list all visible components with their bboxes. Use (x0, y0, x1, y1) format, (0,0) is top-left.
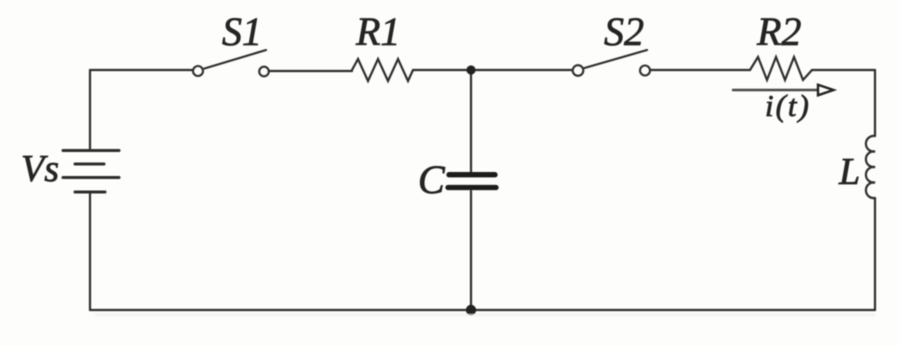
switch S2 (573, 65, 584, 76)
svg-text:i(t): i(t) (765, 88, 811, 123)
svg-text:L: L (838, 151, 860, 193)
wire R2 to corner (812, 69, 875, 71)
current arrow i(t) (733, 89, 817, 92)
wire bottom (90, 309, 875, 311)
capacitor wire upper (470, 70, 472, 172)
scan shadow below bottom wire (95, 314, 875, 317)
wire top-left horizontal (90, 69, 193, 71)
resistor R2 (750, 57, 812, 80)
wire left vertical lower (89, 193, 91, 310)
wire S2 to R2 (651, 69, 751, 71)
svg-text:C: C (418, 157, 446, 202)
wire S1 to R1 (270, 70, 353, 72)
wire node to S2 (471, 69, 572, 71)
wire right vertical upper (874, 70, 876, 136)
svg-text:Vs: Vs (21, 148, 59, 190)
resistor R1 (352, 59, 413, 81)
capacitor C plates (448, 175, 496, 188)
svg-text:R1: R1 (355, 9, 400, 54)
inductor L (866, 136, 875, 198)
svg-text:S1: S1 (222, 9, 262, 54)
capacitor wire lower (470, 191, 472, 310)
battery Vs (63, 151, 119, 193)
svg-text:R2: R2 (756, 9, 801, 54)
wire right vertical lower (874, 198, 876, 310)
node dot bottom (466, 305, 476, 315)
wire R1 to node (413, 69, 471, 71)
wire left vertical upper (89, 70, 91, 150)
node dot top (466, 65, 475, 74)
switch S1 (193, 66, 203, 76)
svg-text:S2: S2 (604, 9, 644, 54)
